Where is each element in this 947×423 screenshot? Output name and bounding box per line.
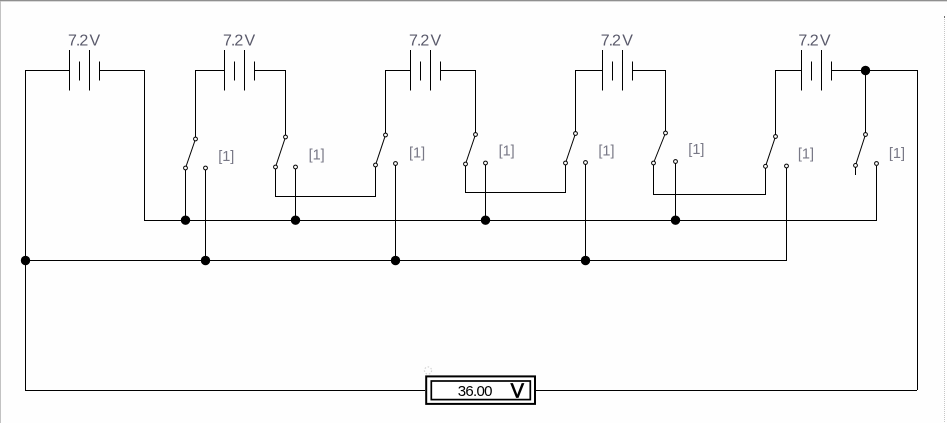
switch S2 right (open) contact pin (294, 165, 298, 169)
wire lower bus end up to switch S7 open contact (786, 168, 787, 260)
svg-text:[1]: [1] (688, 142, 704, 158)
battery B1 plates 7.2 V (69, 50, 100, 91)
wire switch S2 closed contact down (275, 169, 276, 197)
cursor artifact near voltmeter (424, 367, 431, 374)
svg-text:[1]: [1] (889, 146, 905, 162)
wire switch S3 open contact to lower bus junction (395, 166, 396, 262)
wire battery B4 right leg to switch S6 common (665, 70, 666, 131)
svg-text:[1]: [1] (798, 147, 814, 163)
svg-text:[1]: [1] (499, 144, 515, 160)
switch S6 blade (closed to left contact) (654, 133, 666, 163)
wire switch S5 open contact to lower bus junction (585, 165, 586, 262)
junction lower bus at switch S5 open drop (581, 256, 590, 265)
switch S5 right (open) contact pin (584, 161, 588, 165)
wire upper bus net N1 (144, 220, 877, 221)
junction upper bus at switch S4 (481, 216, 490, 225)
switch S5 blade (closed to left contact) (566, 134, 576, 164)
switch S7 left (closed) contact pin (764, 164, 768, 168)
battery B2 plates 7.2 V (224, 50, 255, 91)
voltmeter U1 outer case (426, 376, 535, 404)
switch S1 left (closed) contact pin (184, 166, 188, 170)
wire switch S4 closed contact down (465, 166, 466, 193)
wire switch S8 open contact stub (855, 168, 856, 176)
wire right side drop from node P to voltmeter (917, 70, 918, 390)
wire battery B1 right lead (100, 70, 144, 71)
wire series link battery B3 to B4 (465, 192, 566, 193)
svg-text:[1]: [1] (409, 145, 425, 161)
wire battery B4 right lead (632, 70, 665, 71)
wire switch S6 open contact to upper bus junction (675, 164, 676, 222)
switch S8 left (closed) contact pin (854, 164, 858, 168)
junction upper bus at switch S1 (181, 216, 190, 225)
wire battery B3 right leg to switch S4 common (475, 70, 476, 133)
wire battery B5 left lead (775, 70, 801, 71)
wire battery B3 right lead (440, 70, 475, 71)
wire series link battery B4 to B5 (653, 194, 766, 195)
switch S1 right (open) contact pin (204, 166, 208, 170)
wire switch S2 open contact to upper bus junction (295, 169, 296, 221)
wire battery B1 left lead (25, 70, 69, 71)
svg-text:[1]: [1] (218, 149, 234, 165)
switch S4 blade (closed to left contact) (466, 135, 476, 165)
svg-text:7.2: 7.2 (223, 33, 243, 50)
wire switch S4 open contact to upper bus junction (485, 165, 486, 221)
wire battery B1 negative leg down left side (25, 70, 26, 390)
wire battery B3 left lead (385, 70, 410, 71)
wire battery B1 positive leg down to upper bus (144, 70, 145, 221)
switch S4 left (closed) contact pin (464, 162, 468, 166)
wire switch S3 closed contact down (375, 167, 376, 197)
voltmeter U1 display bezel (431, 381, 530, 400)
switch S2 blade (closed to left contact) (276, 137, 286, 167)
switch S1 blade (closed to left contact) (186, 139, 196, 168)
window border top (0, 0, 947, 1)
junction lower bus at switch S3 open drop (391, 256, 400, 265)
svg-text:7.2: 7.2 (409, 33, 429, 50)
switch S3 blade (closed to left contact) (376, 135, 386, 165)
wire battery B2 right leg to switch S2 common (285, 70, 286, 135)
junction lower bus at switch S1 open drop (201, 256, 210, 265)
switch S3 left (closed) contact pin (374, 163, 378, 167)
battery B5 plates 7.2 V (801, 50, 832, 91)
svg-text:V: V (622, 33, 633, 50)
wire battery B4 left lead (575, 70, 602, 71)
svg-text:7.2: 7.2 (601, 33, 621, 50)
wire battery B5 right lead to node P (831, 70, 917, 71)
switch S6 left (closed) contact pin (652, 161, 656, 165)
svg-text:[1]: [1] (598, 143, 614, 159)
wire battery B4 left leg to switch S5 common (575, 70, 576, 132)
switch S1 common terminal pin (194, 137, 198, 141)
window border left (0, 1, 1, 423)
switch S7 right (open) contact pin (785, 164, 789, 168)
battery B4 plates 7.2 V (602, 50, 633, 91)
svg-text:7.2: 7.2 (68, 33, 88, 50)
switch S3 common terminal pin (384, 133, 388, 137)
switch S3 right (open) contact pin (394, 162, 398, 166)
switch S6 common terminal pin (664, 131, 668, 135)
wire battery B2 left lead (195, 70, 224, 71)
svg-text:7.2: 7.2 (798, 33, 818, 50)
wire bottom return to voltmeter (25, 390, 425, 391)
junction upper bus at switch S6 (671, 216, 680, 225)
junction upper bus at switch S2 (291, 216, 300, 225)
window border right dotted (944, 16, 945, 18)
wire battery B5 right leg node P to switch S8 common (865, 70, 866, 133)
switch S4 common terminal pin (474, 133, 478, 137)
wire switch S5 closed contact down (565, 165, 566, 193)
switch S2 common terminal pin (284, 135, 288, 139)
svg-text:V: V (820, 33, 831, 50)
svg-text:V: V (90, 33, 101, 50)
switch S8 common terminal pin (864, 133, 868, 137)
battery B3 plates 7.2 V (410, 50, 441, 91)
svg-text:V: V (431, 33, 442, 50)
svg-text:36.00: 36.00 (458, 383, 492, 400)
svg-text:V: V (245, 33, 256, 50)
junction node P battery B5 output (861, 66, 870, 75)
switch S4 right (open) contact pin (484, 161, 488, 165)
switch S7 blade (closed to left contact) (766, 137, 776, 167)
wire voltmeter right lead (536, 390, 917, 391)
wire battery B2 left leg to switch S1 common (195, 70, 196, 137)
svg-text:[1]: [1] (309, 148, 325, 164)
wire series link battery B2 to B3 (275, 196, 376, 197)
svg-text:V: V (511, 381, 525, 403)
wire switch S1 closed contact to upper bus junction (185, 170, 186, 221)
switch S7 common terminal pin (774, 135, 778, 139)
wire upper bus end up to switch S8 open contact (876, 166, 877, 221)
wire switch S1 open contact to lower bus junction (205, 170, 206, 261)
switch S8 right (open) contact pin (875, 162, 879, 166)
wire switch S7 closed contact down (765, 169, 766, 196)
wire battery B3 left leg to switch S3 common (385, 70, 386, 133)
wire battery B2 right lead (254, 70, 285, 71)
wire lower bus net N2 (25, 260, 787, 261)
switch S5 left (closed) contact pin (564, 161, 568, 165)
junction lower bus at battery B1 leg (21, 256, 30, 265)
wire battery B5 left leg to switch S7 common (775, 70, 776, 135)
switch S2 left (closed) contact pin (274, 165, 278, 169)
switch S8 blade (closed to left contact) (856, 135, 866, 166)
switch S6 right (open) contact pin (674, 160, 678, 164)
wire switch S6 closed contact down (653, 165, 654, 195)
switch S5 common terminal pin (574, 132, 578, 136)
